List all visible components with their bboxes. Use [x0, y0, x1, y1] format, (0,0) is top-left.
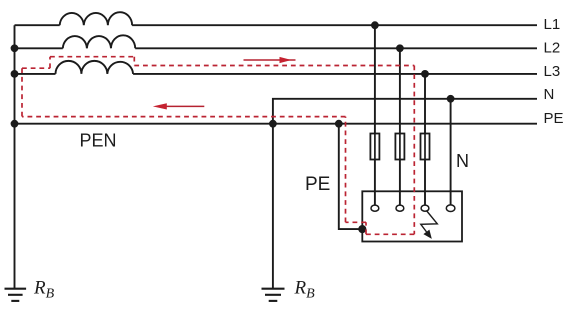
wire left star-point bus [14, 25, 16, 288]
fuse F2 [395, 134, 404, 160]
wire PEN / PE line [15, 123, 538, 125]
node L3 star point junction [11, 70, 19, 78]
fault current path red dashed: step up before winding [49, 57, 51, 68]
node PEN star point junction [11, 120, 19, 128]
fault current path red dashed: short horizontal over PE joint [346, 221, 367, 223]
fault current path red dashed: horizontal inside consumer unit [364, 233, 414, 235]
svg-text:L3: L3 [544, 63, 561, 80]
wire PE drop to consumer unit [339, 124, 363, 229]
current direction arrow left (return via PEN) [153, 103, 205, 109]
svg-text:L2: L2 [544, 39, 561, 56]
terminal L1 [371, 205, 379, 211]
terminal L2 [396, 205, 404, 211]
fault current path red dashed: vertical beside PE drop [345, 117, 347, 223]
wire earth electrode drop at split point [272, 124, 274, 288]
svg-text:RB: RB [294, 278, 316, 302]
fault current path red dashed: left vertical by star point [22, 57, 414, 235]
node N tap junction [447, 95, 455, 103]
node L2 star point junction [11, 44, 19, 52]
svg-text:L1: L1 [544, 16, 561, 33]
svg-text:N: N [544, 86, 555, 103]
fault current path red dashed: short horizontal above L3 [22, 67, 50, 69]
node L3 tap junction [421, 70, 429, 78]
wire L1 line to right edge [132, 24, 537, 26]
fault lightning bolt from L3 terminal to enclosure [421, 211, 438, 239]
wire L2 drop to consumer unit [399, 48, 401, 205]
fault current path red dashed: vertical down beside L3 drop [413, 66, 415, 235]
transformer winding L1 [60, 12, 132, 25]
earth electrode RB middle (PEN split) [262, 289, 285, 301]
node PEN split junction [269, 120, 277, 128]
fault current path red dashed: horizontal over L3 winding [50, 56, 134, 58]
wire L2 line to right edge [135, 47, 537, 49]
svg-text:PE: PE [544, 110, 564, 127]
node PE to enclosure junction [358, 225, 366, 233]
wire L3 left segment [15, 73, 56, 75]
terminal L3 [421, 205, 429, 211]
fault current path red dashed: step down after winding [133, 57, 135, 66]
wire N line [273, 99, 537, 124]
node L2 tap junction [396, 44, 404, 52]
svg-text:N: N [456, 151, 469, 171]
wire N drop to consumer unit [450, 99, 452, 205]
current direction arrow right (toward fault) [244, 57, 296, 63]
terminal N [446, 205, 455, 212]
wire L3 line to right edge [133, 73, 537, 75]
fault current path red dashed: short vertical at enclosure joint [365, 222, 367, 234]
wire L3 drop to consumer unit [424, 74, 426, 205]
fuse F3 [421, 134, 430, 160]
node PE tap junction [335, 120, 343, 128]
earth electrode RB left (transformer) [5, 289, 27, 301]
wire L1 left segment [15, 24, 60, 26]
fuse F1 [370, 134, 379, 160]
transformer winding L3 [56, 61, 134, 74]
node L1 tap junction [371, 21, 379, 29]
wire L1 drop to consumer unit [374, 25, 376, 205]
svg-text:PE: PE [305, 174, 330, 195]
svg-text:PEN: PEN [80, 131, 117, 151]
fault current path red dashed: long horizontal along L3 [134, 65, 414, 67]
svg-text:RB: RB [33, 278, 55, 302]
consumer unit enclosure [362, 191, 462, 241]
wire L2 left segment [15, 47, 63, 49]
transformer winding L2 [63, 35, 135, 48]
fault current path red dashed: long horizontal along PEN [22, 116, 346, 118]
